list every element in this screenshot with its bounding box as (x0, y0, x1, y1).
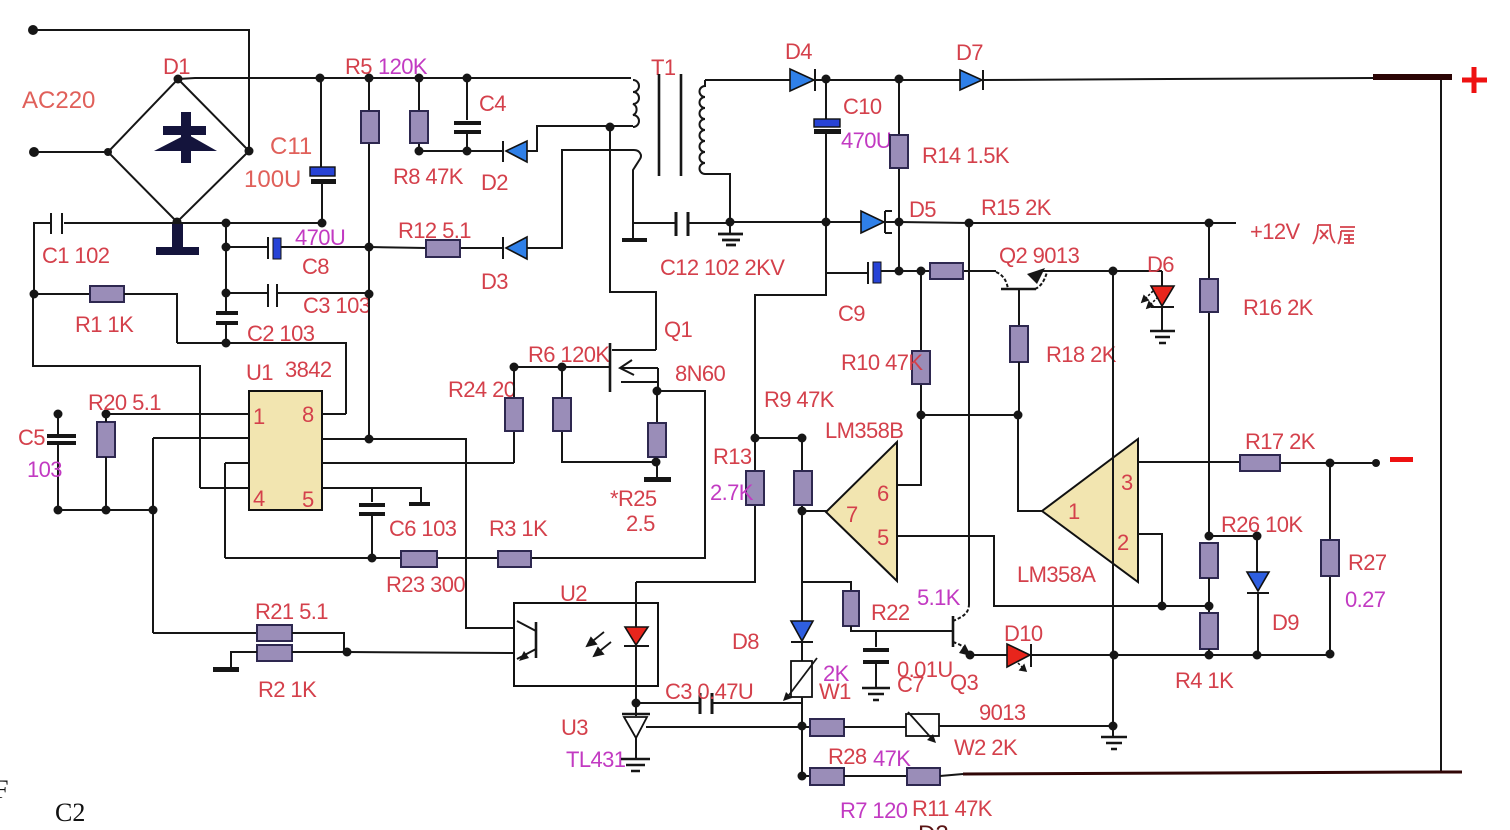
wire U1 pin1 row y415 (106, 413, 249, 415)
wire branch to R22 (802, 582, 851, 591)
node secondary bottom x730 (726, 218, 735, 227)
wire stub to ground x1113 (1112, 726, 1114, 736)
node gate-R24 (510, 363, 519, 372)
bridge negative thick bar symbol (156, 222, 199, 255)
node R1 left (30, 290, 39, 299)
wire R28 to W2 (844, 726, 906, 728)
wire U3 cathode to ground (635, 738, 637, 758)
wire pin7 stub (802, 510, 827, 512)
wire primary drain drop (610, 127, 656, 350)
wire R22 to Q3 base (851, 626, 953, 631)
node R8 bottom (415, 147, 424, 156)
svg-text:F: F (0, 775, 8, 804)
resistor R7 (810, 768, 844, 785)
label minus terminal (1390, 457, 1413, 462)
wire C10 bottom lead (755, 134, 826, 438)
node R25 bottom (652, 458, 661, 467)
transistor Q2 (996, 272, 1047, 289)
wire R9 column (801, 438, 803, 512)
node bridge left vertex (104, 148, 112, 156)
node C9-R14 (895, 267, 904, 276)
wire R1 left lead (34, 293, 90, 295)
svg-text:D2: D2 (918, 821, 949, 830)
wire U1 pin5 row (322, 488, 421, 502)
wire pin2 leg (1138, 534, 1162, 606)
node R10 bottom (917, 411, 926, 420)
resistor R4 (1200, 613, 1218, 649)
potentiometer W1 (791, 661, 812, 697)
svg-text:R15 2K: R15 2K (981, 195, 1052, 220)
node C10-y222 (822, 218, 831, 227)
svg-text:D8: D8 (732, 629, 759, 654)
svg-text:C7: C7 (897, 672, 924, 697)
node R9 top (798, 434, 807, 443)
resistor R8 (410, 111, 428, 143)
node rail-Q3col (965, 219, 974, 228)
svg-text:1: 1 (1068, 499, 1080, 524)
capacitor C2 plates (216, 313, 238, 323)
ground U3 (621, 759, 650, 771)
svg-text:470U: 470U (841, 128, 891, 153)
wire secondary bottom (705, 174, 730, 222)
node U1-R5 column (365, 435, 374, 444)
capacitor C1 plates (51, 213, 62, 234)
ground aux single bar (622, 238, 647, 242)
node Q1 source (653, 387, 662, 396)
wire R20 bottom (105, 414, 107, 510)
shunt reg U3 TL431 (635, 703, 637, 716)
capacitor C9 electrolytic (867, 262, 869, 284)
resistor R11 (907, 768, 940, 785)
wire D9 to sense rail (1257, 593, 1259, 655)
resistor R16 (1200, 279, 1218, 312)
resistor R23 (401, 551, 437, 567)
capacitor C8 electrolytic (267, 237, 269, 259)
pin5 end bar (409, 502, 430, 506)
wire x1113 vertical to ground (1112, 271, 1114, 726)
diode D9 (1247, 572, 1269, 591)
node rail-R5 (365, 74, 374, 83)
svg-text:4: 4 (253, 486, 265, 511)
wire C4 column (466, 78, 468, 151)
wire source sense to y558 (225, 391, 705, 558)
svg-text:R13: R13 (713, 444, 752, 469)
wire aux row to C12 (633, 222, 730, 224)
node C8-x369 (365, 243, 374, 252)
wire W2 to ground node (939, 725, 1113, 727)
svg-text:Q3: Q3 (950, 670, 979, 695)
svg-text:R6 120K: R6 120K (528, 342, 610, 367)
LED D6 (1151, 286, 1174, 306)
transformer T1 primary winding (633, 80, 639, 127)
node emitter-x1113 (1109, 267, 1118, 276)
svg-text:8: 8 (302, 402, 314, 427)
wire AC bottom to bridge left vertex (34, 151, 108, 153)
wire y343 to U1 pin8 riser (177, 343, 346, 414)
thick output stub (1373, 74, 1452, 80)
svg-text:C6 103: C6 103 (389, 516, 457, 541)
wire R21 right (292, 633, 344, 652)
capacitor C5 (57, 414, 59, 510)
resistor R26 (1200, 543, 1218, 578)
node C6 bottom (368, 554, 377, 563)
node D5-R14 (895, 218, 904, 227)
node U2 cathode / U3 (632, 699, 641, 708)
svg-text:C5: C5 (18, 425, 45, 450)
label fan chinese (1313, 225, 1355, 244)
wire D6 to ground (1161, 307, 1163, 330)
svg-text:5: 5 (877, 525, 889, 550)
wire U1 right y463 to R24 (322, 462, 514, 464)
transformer secondary winding (700, 80, 706, 174)
resistor R13 (746, 471, 764, 505)
node rail-R16 (1205, 219, 1214, 228)
svg-text:3842: 3842 (285, 357, 332, 382)
wire Q2 collector to R18 (1018, 290, 1020, 326)
svg-text:R27: R27 (1348, 550, 1387, 575)
capacitor C3 0.47U plates (700, 693, 712, 714)
diode D3 (502, 237, 504, 259)
resistor R6 (553, 398, 571, 431)
svg-text:LM358B: LM358B (825, 418, 903, 443)
resistor R1 (90, 286, 124, 302)
svg-text:7: 7 (846, 502, 858, 527)
wire R7 left stub (802, 775, 810, 777)
resistor R14 (890, 135, 908, 168)
node C2 bottom x226 (222, 339, 231, 348)
svg-text:C3 103: C3 103 (303, 293, 371, 318)
svg-text:D2: D2 (481, 170, 508, 195)
node x226-C3 (222, 289, 231, 298)
node C9-R10 (917, 267, 926, 276)
svg-text:U3: U3 (561, 715, 588, 740)
wire AC top to bridge right vertex (33, 30, 249, 151)
svg-text:D9: D9 (1272, 610, 1299, 635)
node y223-x226 (222, 219, 231, 228)
D10 led arrows (1018, 663, 1026, 671)
node C5 bottom (54, 506, 63, 515)
wire R6 column (562, 367, 656, 462)
resistor R3 (498, 551, 531, 567)
node R4-sense (1205, 651, 1214, 660)
wire x226 vertical C8/C3/C2 column (225, 223, 227, 343)
wire x153 column (152, 438, 154, 633)
svg-text:C8: C8 (302, 254, 329, 279)
wire pin3 row y462 (1138, 462, 1376, 463)
svg-text:R8 47K: R8 47K (393, 164, 464, 189)
wire Q3 collector column x969 (968, 223, 970, 604)
ground x1113 (1101, 737, 1127, 749)
U2 led (625, 627, 648, 645)
wire R14 column (898, 79, 900, 271)
node Q3 emitter (966, 651, 975, 660)
resistor R24 (505, 398, 523, 431)
node rail-R8 (415, 74, 424, 83)
wire C8 row y247 (226, 246, 369, 248)
svg-text:R7 120: R7 120 (840, 798, 908, 823)
resistor R20 (97, 422, 115, 457)
wire pin6 leg (898, 415, 921, 485)
wire U1 pin4 row y488 (200, 487, 249, 489)
transformer core (659, 74, 681, 176)
svg-text:C2: C2 (55, 798, 85, 827)
svg-text:C1 102: C1 102 (42, 243, 110, 268)
wire D6 top lead (1161, 271, 1163, 286)
node R21/R2 junction (343, 648, 352, 657)
wire pin4 riser to y366 (33, 294, 200, 488)
U2 phototransistor (535, 622, 538, 658)
wire x153 to R21 (153, 632, 257, 634)
sense return bus maroon (963, 772, 1462, 774)
svg-text:2.5: 2.5 (626, 511, 655, 536)
wire D10 to sense rail (1031, 654, 1330, 656)
wire R26 top branch to D9 (1209, 536, 1257, 572)
wire U3 ref to feedback row (646, 726, 810, 728)
svg-text:C11: C11 (270, 133, 312, 160)
svg-text:U2: U2 (560, 581, 587, 606)
capacitor C12 plates (676, 212, 688, 236)
wire output + rail (983, 78, 1373, 80)
op-amp U4A LM358A (1042, 439, 1138, 582)
wire C11 bottom lead (321, 184, 323, 223)
gate drive row y367 (514, 366, 609, 368)
svg-text:Q2 9013: Q2 9013 (999, 243, 1080, 268)
transistor Q1 mosfet gate bar (609, 343, 612, 392)
node minus stub (1372, 459, 1380, 467)
svg-text:C9: C9 (838, 301, 865, 326)
wire C3b row y703 (636, 702, 802, 704)
wire U1 pin8 stub (322, 413, 346, 415)
wire secondary top to D4 (705, 79, 790, 81)
D1 inner symbol (154, 112, 217, 163)
wire R16 column (1208, 223, 1210, 536)
wire U1 right y438 to x466 (322, 439, 514, 628)
svg-text:R22: R22 (871, 600, 910, 625)
svg-text:+12V: +12V (1250, 219, 1301, 244)
wire C1/bridge bottom row y223 (64, 222, 322, 224)
wire comparator node row y415 (921, 414, 1018, 416)
wire C10 top lead (825, 79, 827, 119)
node bridge bottom vertex (173, 218, 182, 227)
resistor R2 (257, 645, 292, 661)
svg-text:Q1: Q1 (664, 317, 693, 342)
node R17-R27 (1326, 459, 1335, 468)
svg-text:D5: D5 (909, 197, 936, 222)
svg-text:D6: D6 (1147, 252, 1174, 277)
svg-text:R17 2K: R17 2K (1245, 429, 1316, 454)
wire right bus down (1440, 80, 1442, 771)
node feedback y726 (798, 722, 807, 731)
Q1 body stub with arrow (620, 367, 658, 369)
node R18 bottom (1014, 411, 1023, 420)
wire R18 bottom (1018, 362, 1020, 415)
svg-text:9013: 9013 (979, 700, 1026, 725)
resistor R5 (361, 111, 379, 143)
svg-text:470U: 470U (295, 225, 345, 250)
node primary bottom (606, 123, 615, 132)
node bridge right vertex (245, 147, 254, 156)
node x1113-y655 (1110, 651, 1119, 660)
wire R13 top node y438 (755, 437, 802, 439)
diode D7 (960, 70, 982, 90)
U2 light arrows (587, 632, 611, 656)
ground D6 (1150, 331, 1175, 343)
node bridge top vertex (174, 75, 183, 84)
ground R2 single bar (213, 667, 239, 672)
LED D10 (1007, 644, 1030, 667)
svg-text:R12 5.1: R12 5.1 (398, 218, 471, 243)
svg-text:U1: U1 (246, 360, 273, 385)
node R20 top (102, 410, 111, 419)
wire W1 to feedback node (801, 697, 803, 776)
node divider y776 (798, 772, 807, 781)
svg-text:C12 102 2KV: C12 102 2KV (660, 255, 785, 280)
svg-text:LM358A: LM358A (1017, 562, 1096, 587)
wire D3 to aux winding top (527, 150, 634, 248)
wire HV+ top rail (178, 78, 631, 79)
AC input terminal bottom (29, 147, 39, 157)
svg-text:R2 1K: R2 1K (258, 677, 317, 702)
label + terminal (1462, 67, 1487, 93)
node R14 top (895, 75, 904, 84)
diode D8 (791, 621, 813, 641)
resistor R12 (426, 240, 460, 257)
svg-text:R3 1K: R3 1K (489, 516, 548, 541)
capacitor C4 plates (454, 123, 481, 132)
wire R7 to R11 (844, 775, 907, 777)
node D9-sense (1253, 651, 1262, 660)
wire R11 to sense bus (940, 774, 963, 776)
wire R24 column (513, 367, 515, 463)
svg-text:W1: W1 (819, 679, 851, 704)
node D9 top (1253, 532, 1262, 541)
node rail-C4 (463, 74, 472, 83)
op-amp U4B LM358B (826, 442, 897, 581)
svg-text:2: 2 (1117, 530, 1129, 555)
wire R10 column (920, 271, 922, 415)
ground C7 (862, 688, 890, 700)
node x226-C8 (222, 243, 231, 252)
wire C6 top lead (371, 488, 373, 558)
wire output node down to D8 (801, 511, 803, 621)
wire R4 bottom (1208, 649, 1210, 655)
capacitor C11 electrolytic (310, 167, 335, 176)
svg-text:5: 5 (302, 487, 314, 512)
node C10 top (822, 75, 831, 84)
node opamp output pin7 (798, 507, 807, 516)
svg-text:8N60: 8N60 (675, 361, 726, 386)
node C4 bottom (463, 147, 472, 156)
wire U2 led cathode (635, 646, 637, 703)
svg-text:D3: D3 (481, 269, 508, 294)
IC U1 UC3842 (249, 391, 322, 510)
resistor R28 (810, 719, 844, 736)
node pin2-R26 (1158, 602, 1167, 611)
svg-text:C2 103: C2 103 (247, 321, 315, 346)
node gate-R6 (558, 363, 567, 372)
wire secondary return y222 (730, 221, 861, 223)
resistor R18 (1010, 326, 1028, 362)
svg-text:R14 1.5K: R14 1.5K (922, 143, 1010, 168)
svg-text:R9 47K: R9 47K (764, 387, 835, 412)
wire U2 led anode (635, 582, 637, 627)
node C5 top (54, 410, 63, 419)
wire R25 column (656, 391, 658, 477)
svg-text:AC220: AC220 (22, 87, 95, 114)
diode D4 (790, 69, 814, 91)
Q1 source stub (621, 368, 658, 391)
wire R12 row y248 (369, 247, 503, 248)
svg-text:R26 10K: R26 10K (1221, 512, 1303, 537)
wire R13 column (636, 438, 755, 582)
capacitor C10 electrolytic (814, 119, 840, 127)
svg-text:D10: D10 (1004, 621, 1043, 646)
svg-text:T1: T1 (651, 55, 676, 80)
svg-text:D7: D7 (956, 40, 983, 65)
capacitor C7 (875, 631, 877, 687)
svg-text:6: 6 (877, 481, 889, 506)
wire pin5 leg (898, 536, 1209, 606)
resistor R9 (794, 471, 812, 505)
node C3-x369 (365, 290, 374, 299)
wire y510 row (58, 509, 153, 511)
svg-text:47K: 47K (873, 746, 911, 771)
wire Q2 emitter to D6 (1043, 270, 1162, 272)
bridge rectifier D1 diamond (108, 79, 249, 222)
svg-text:120K: 120K (378, 54, 428, 79)
svg-text:2.7K: 2.7K (710, 480, 754, 505)
resistor R21 (257, 625, 292, 641)
node rail-C11 (316, 74, 325, 83)
wire D8 to W1 (801, 642, 803, 661)
resistor R25 (648, 423, 666, 457)
svg-text:5.1K: 5.1K (917, 585, 961, 610)
svg-text:R18 2K: R18 2K (1046, 342, 1117, 367)
AC input terminal top (28, 25, 38, 35)
wire D4 to D7 rail (815, 79, 960, 81)
wire Q3 emitter to D10 (970, 654, 1007, 656)
Q1 drain stub (612, 349, 656, 351)
node R26 top (1205, 532, 1214, 541)
transistor Q3 (952, 616, 955, 647)
node R20 bottom (102, 506, 111, 515)
svg-text:R16 2K: R16 2K (1243, 295, 1314, 320)
transformer aux winding hook (633, 150, 641, 223)
wire R8 column (418, 78, 420, 151)
svg-text:R11 47K: R11 47K (912, 796, 993, 821)
D6 led arrows (1142, 291, 1158, 308)
ground secondary return (718, 234, 743, 245)
svg-text:R1 1K: R1 1K (75, 312, 134, 337)
svg-text:R28: R28 (828, 744, 867, 769)
wire aux to ground bar (632, 223, 634, 238)
svg-text:D4: D4 (785, 39, 812, 64)
resistor R22 (843, 591, 859, 626)
svg-text:3: 3 (1121, 470, 1133, 495)
node y510-x153 (149, 506, 158, 515)
wire C1 left to R1 (34, 223, 51, 294)
optocoupler U2 box (514, 603, 658, 686)
svg-text:R21 5.1: R21 5.1 (255, 599, 328, 624)
diode D5 (861, 211, 884, 233)
wire to U2 emitter (292, 652, 514, 653)
wire U1 left y463 (225, 462, 249, 464)
wire y151 row to D2 (419, 150, 503, 152)
svg-text:C3 0.47U: C3 0.47U (665, 679, 753, 704)
wire x1113 overlay through opamp (1112, 440, 1114, 610)
node R27-sense (1326, 650, 1335, 659)
wire R1 right to y343 rail (124, 294, 177, 343)
